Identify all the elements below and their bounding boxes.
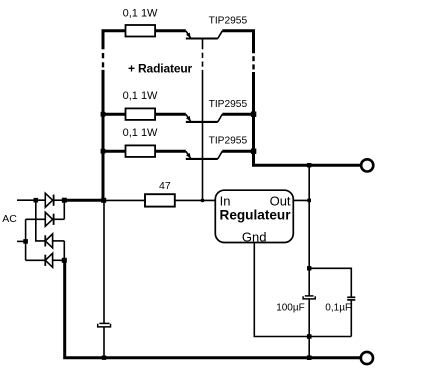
junction regulator out [307, 199, 311, 203]
svg-text:0,1 1W: 0,1 1W [123, 8, 158, 20]
wire 47 node to resistor R4 [103, 199, 145, 201]
resistor R4 47 [145, 194, 175, 206]
junction minus node [62, 258, 67, 263]
resistor R2 0,1 1W (middle) [126, 108, 186, 120]
svg-text:AC: AC [2, 213, 17, 225]
svg-text:0,1 1W: 0,1 1W [123, 127, 158, 139]
op-amp U1 regulator box [215, 190, 293, 242]
junction output top [307, 163, 311, 167]
wire Q3 collector to right rail [222, 150, 253, 153]
transistor Q1 TIP2955 (top) [186, 31, 223, 39]
junction rail / 47 node [101, 198, 106, 203]
transistor Q2 TIP2955 (middle) [186, 114, 223, 122]
svg-text:Regulateur: Regulateur [220, 207, 292, 222]
wire D3 anode down to minus node [63, 241, 65, 260]
terminal J2 output - [361, 352, 373, 364]
wire Q2 collector to right rail [222, 113, 253, 116]
wire Q1 collector to right rail [222, 31, 253, 54]
terminal J1 output + [361, 159, 373, 171]
wire left rail lower segment [102, 70, 105, 201]
wire D2 cathode up to plus node [63, 200, 65, 219]
wire row3 rail to resistor [103, 150, 126, 153]
resistor R1 0,1 1W (top) [126, 25, 186, 37]
svg-text:TIP2955: TIP2955 [209, 15, 248, 26]
wire regulator Gnd down and across [254, 243, 351, 337]
wire AC2 to D2 [26, 218, 46, 220]
junction gnd / caps bottom [307, 334, 312, 339]
wire minus rail down and bottom rail to output [65, 260, 361, 357]
svg-text:+ Radiateur: + Radiateur [128, 62, 193, 76]
wire base rail of Q1-Q3 down to 47 ohm node [202, 39, 204, 201]
junction rail row2 [101, 112, 106, 117]
wire left rail top segment [103, 31, 126, 50]
diode D1 [45, 193, 64, 207]
wire collector rail to output [254, 72, 361, 165]
junction plus node [62, 198, 67, 203]
wire C2 bottom to bottom rail [308, 299, 310, 358]
svg-text:Out: Out [270, 193, 291, 208]
wire AC line 1 [17, 199, 45, 201]
diode D3 [45, 234, 64, 248]
capacitor C3 0,1uF [347, 297, 355, 300]
wire AC1 down to D3 [36, 200, 46, 241]
wire output node vertical upper [308, 165, 310, 296]
resistor R3 0,1 1W (bottom) [126, 145, 186, 157]
wire collector rail dash-dot (heatsink boundary) [252, 56, 254, 69]
wire filter cap to bottom rail [103, 327, 105, 358]
wire regulator Out to output node [293, 199, 309, 201]
wire AC2 branch vertical [25, 219, 27, 260]
svg-text:47: 47 [159, 180, 171, 192]
capacitor C2 100uF [303, 296, 315, 299]
junction Q2 collector [251, 112, 256, 117]
wire C3 branch top [309, 268, 351, 297]
svg-text:Gnd: Gnd [242, 230, 267, 245]
svg-text:TIP2955: TIP2955 [209, 135, 248, 146]
wire filter cap line upper [103, 200, 105, 323]
svg-text:TIP2955: TIP2955 [209, 99, 248, 110]
svg-text:In: In [220, 193, 231, 208]
transistor Q3 TIP2955 (bottom) [186, 151, 223, 159]
svg-text:0,1 1W: 0,1 1W [123, 90, 158, 102]
wire row2 rail to resistor [103, 113, 126, 116]
capacitor C1 filter [98, 323, 111, 327]
wire AC line 2 [17, 240, 26, 242]
wire plus node to left rail [64, 199, 103, 202]
diode D2 [45, 212, 64, 226]
wire R4 to regulator In [175, 199, 216, 201]
junction rail row3 [101, 149, 106, 154]
junction base rail at 47 node [201, 199, 205, 203]
junction bottom rail filter cap [102, 356, 106, 360]
junction C3 branch top [307, 266, 311, 270]
junction AC2 node [23, 239, 28, 244]
diode D4 [45, 253, 64, 267]
junction Q3 collector [251, 149, 256, 154]
junction bottom rail main [307, 355, 312, 360]
wire left rail dash-dot (heatsink boundary) [102, 53, 104, 67]
junction AC1/D3 tap [34, 198, 39, 203]
svg-text:100µF: 100µF [276, 302, 305, 313]
wire AC2 to D4 [26, 259, 46, 261]
svg-text:0,1µF: 0,1µF [325, 302, 351, 313]
wire C3 bottom branch [350, 300, 352, 337]
